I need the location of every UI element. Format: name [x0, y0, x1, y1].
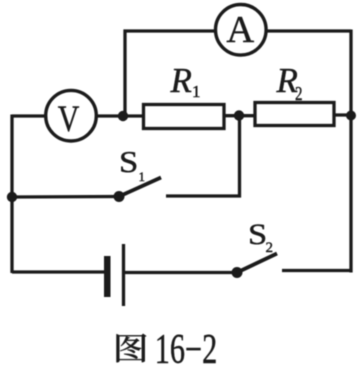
svg-text:A: A [226, 9, 254, 51]
caption 图 16-2 [116, 325, 217, 369]
wire right rail [349, 30, 352, 273]
label R2 [276, 61, 303, 105]
wire ammeter branch vertical [123, 30, 126, 117]
resistor R2 [255, 103, 334, 126]
wire voltmeter row [12, 114, 123, 117]
svg-text:2: 2 [295, 82, 302, 105]
svg-text:V: V [58, 99, 80, 139]
wire left node to S1 pivot [12, 195, 119, 199]
label R1 [170, 61, 201, 101]
junction node R1/R2/S1 [234, 110, 244, 120]
wire S1 branch (from R1/R2 node down and left) [166, 116, 240, 196]
svg-text:2: 2 [266, 240, 274, 256]
svg-text:R: R [170, 61, 192, 100]
battery [104, 244, 124, 306]
wire node to R1 [123, 114, 145, 117]
wire battery left [12, 270, 105, 273]
resistor R1 [144, 105, 225, 129]
label S1 [119, 146, 145, 184]
label S2 [248, 217, 273, 256]
wire R1 to R2 [224, 114, 255, 117]
svg-text:S: S [248, 217, 267, 250]
junction node left rail/S1 [7, 192, 17, 202]
svg-text:1: 1 [139, 169, 146, 184]
wire left rail [10, 115, 13, 274]
ammeter A [216, 5, 267, 56]
svg-text:16−2: 16−2 [155, 325, 217, 369]
switch S1 [114, 178, 162, 203]
wire battery to S2 pivot [125, 271, 232, 274]
wire S2 fixed contact [282, 269, 353, 272]
wire R2 to right rail [334, 113, 351, 116]
switch S2 [232, 254, 278, 279]
wire top (ammeter loop) [124, 29, 352, 32]
junction node right rail [346, 111, 356, 121]
svg-text:1: 1 [192, 82, 201, 101]
svg-text:S: S [119, 146, 138, 180]
voltmeter V [46, 90, 97, 141]
junction node voltmeter/R1/ammeter [118, 111, 128, 121]
